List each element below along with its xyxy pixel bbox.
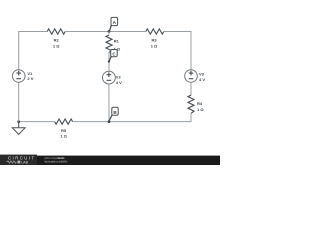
resistor R5 — [55, 119, 73, 124]
wire left-bottom segment — [18, 82, 20, 121]
svg-text:R1: R1 — [114, 38, 120, 43]
node B junction dot — [108, 120, 111, 123]
wire right-bottom segment — [109, 113, 191, 121]
wire top-right segment — [164, 32, 191, 70]
voltage source V2 — [103, 71, 116, 84]
wire right-middle segment — [190, 82, 192, 95]
watermark bar — [0, 156, 220, 165]
svg-text:R4: R4 — [197, 101, 203, 106]
watermark logo zigzag and LAB — [7, 160, 29, 164]
node A flag — [109, 17, 117, 31]
resistor R4 — [188, 95, 194, 113]
wire middle-top segment — [108, 32, 110, 35]
node C anchor dot — [108, 60, 110, 62]
node A junction dot — [108, 30, 111, 33]
svg-text:LAB: LAB — [21, 160, 28, 164]
svg-text:R5: R5 — [61, 128, 67, 133]
junction dot at ground node — [17, 120, 20, 123]
svg-text:4 V: 4 V — [116, 80, 122, 85]
svg-text:1 Ω: 1 Ω — [197, 107, 204, 112]
svg-text:R2: R2 — [54, 38, 60, 43]
resistor R3 — [146, 29, 164, 34]
svg-text:V3: V3 — [199, 71, 205, 76]
wire bottom-middle segment — [73, 121, 109, 123]
node B flag — [109, 107, 118, 121]
svg-text:4 V: 4 V — [199, 77, 205, 82]
node C flag — [109, 50, 117, 62]
wire bottom-left segment — [19, 121, 55, 123]
svg-text:http://circuitlab.com/c9j6k45d: http://circuitlab.com/c9j6k45d — [44, 160, 68, 163]
resistor R1 — [106, 35, 112, 52]
wire top-middle segment — [65, 31, 146, 33]
resistor R2 — [47, 29, 65, 34]
svg-text:1 Ω: 1 Ω — [151, 43, 158, 48]
voltage source V3 — [185, 70, 198, 83]
wire middle-bottom segment — [108, 84, 110, 122]
watermark logo block — [0, 155, 37, 165]
voltage source V1 — [12, 70, 25, 83]
ground — [12, 122, 25, 135]
svg-text:2 V: 2 V — [27, 76, 33, 81]
svg-text:R3: R3 — [151, 38, 157, 43]
wire middle segment — [108, 52, 110, 71]
svg-text:1 Ω: 1 Ω — [60, 133, 67, 138]
wire top-left segment — [19, 32, 48, 70]
svg-text:1 Ω: 1 Ω — [53, 43, 60, 48]
